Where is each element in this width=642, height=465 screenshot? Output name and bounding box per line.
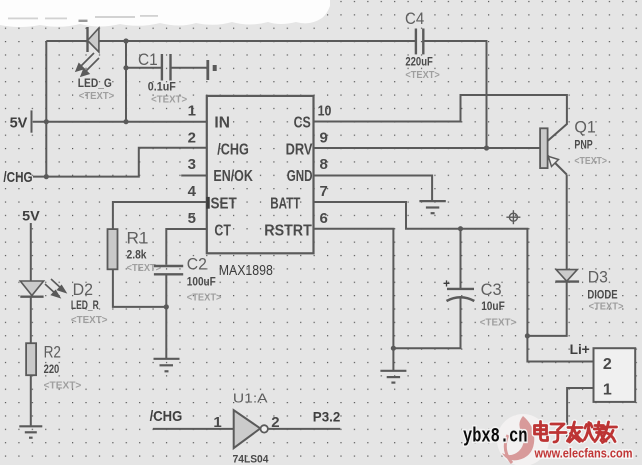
wire: left vertical rail bbox=[45, 41, 47, 177]
ground (GND pin) bbox=[419, 201, 445, 213]
wire: Q1 emitter vertical to D3 bbox=[566, 175, 568, 270]
junction at /CHG rail bbox=[44, 174, 49, 179]
svg-text:MAX1898: MAX1898 bbox=[219, 263, 273, 279]
svg-text:LED_R: LED_R bbox=[71, 298, 99, 312]
svg-text:3: 3 bbox=[188, 156, 196, 173]
LED D1 LED_G bbox=[76, 27, 114, 102]
junction D3 / battery wire bbox=[525, 333, 530, 338]
svg-text:D3: D3 bbox=[588, 268, 608, 287]
wire: C1 right lead to stub bar bbox=[170, 67, 207, 69]
svg-text:BATT: BATT bbox=[270, 196, 300, 213]
svg-text:RSTRT: RSTRT bbox=[264, 223, 312, 240]
svg-text:R2: R2 bbox=[44, 343, 61, 362]
svg-text:U1:A: U1:A bbox=[233, 390, 268, 405]
wire: pin4 ISET to R1 bbox=[113, 202, 207, 229]
svg-text:1: 1 bbox=[213, 414, 221, 431]
ground (C2) bbox=[154, 359, 180, 372]
wire: pin5 CT to C2 bbox=[166, 229, 207, 265]
svg-text:CT: CT bbox=[214, 223, 231, 240]
resistor R2 bbox=[26, 343, 81, 427]
svg-text:IN: IN bbox=[214, 115, 230, 132]
wire: pin3 EN/OK stub bbox=[181, 175, 207, 177]
svg-text:<TEXT>: <TEXT> bbox=[480, 317, 516, 329]
svg-text:R1: R1 bbox=[127, 229, 149, 248]
svg-text:LED_G: LED_G bbox=[78, 76, 112, 90]
svg-text:C1: C1 bbox=[138, 50, 158, 69]
svg-text:5: 5 bbox=[188, 210, 196, 227]
watermark logo circle bbox=[497, 414, 549, 465]
stub bar right of C1 bbox=[206, 60, 209, 80]
svg-text:www.elecfans.com: www.elecfans.com bbox=[534, 447, 633, 461]
svg-text:<TEXT>: <TEXT> bbox=[151, 94, 187, 106]
svg-text:2.8k: 2.8k bbox=[127, 247, 147, 261]
diode D3 bbox=[555, 268, 623, 313]
svg-text:PNP: PNP bbox=[574, 138, 592, 152]
svg-text:2: 2 bbox=[271, 414, 279, 431]
wire: CS pin 10 to Q1 collector bbox=[314, 95, 567, 141]
svg-text:5V: 5V bbox=[22, 208, 40, 224]
junction R1 / C2 bbox=[164, 304, 169, 309]
svg-text:C4: C4 bbox=[405, 9, 424, 28]
wire: D3 cathode down and left to tee bbox=[527, 282, 566, 336]
wire: C1 vertical from top rail to 5V wire bbox=[125, 41, 127, 122]
wire: DRV pin 9 to Q1 base bbox=[314, 147, 541, 149]
svg-text:Li+: Li+ bbox=[570, 341, 590, 357]
wire: C3 top lead bbox=[460, 229, 462, 288]
svg-text:D2: D2 bbox=[73, 280, 93, 299]
resistor R1 bbox=[108, 229, 162, 274]
svg-text:C2: C2 bbox=[187, 255, 207, 274]
wire: top rail from left rail corner to C4 bbox=[46, 40, 416, 42]
crosshair bbox=[506, 210, 520, 224]
junction at 5V rail bbox=[44, 119, 49, 124]
svg-text:7: 7 bbox=[320, 183, 328, 200]
svg-text:<TEXT>: <TEXT> bbox=[574, 155, 607, 167]
capacitor C2 bbox=[154, 255, 222, 304]
5V port bar bbox=[31, 110, 33, 132]
svg-text:1: 1 bbox=[603, 381, 612, 398]
svg-text:220: 220 bbox=[44, 362, 60, 376]
wire: GND pin 8 to ground bbox=[314, 176, 433, 202]
svg-text:<TEXT>: <TEXT> bbox=[187, 291, 222, 303]
svg-text:/CHG: /CHG bbox=[3, 169, 32, 186]
wire: C4 right plate to vertical drop to DRV line bbox=[423, 41, 486, 148]
wire: U1 output to P3.2 bbox=[268, 428, 341, 430]
svg-text:4: 4 bbox=[188, 183, 197, 200]
svg-text:/CHG: /CHG bbox=[217, 141, 249, 158]
junction 5V wire / C1 branch bbox=[123, 119, 128, 124]
wire: BATT pin 7 bbox=[314, 202, 528, 336]
ground (C3/RSTRT) bbox=[380, 371, 406, 383]
svg-text:ISET: ISET bbox=[207, 196, 237, 213]
connector J1 Li+ bbox=[570, 341, 636, 402]
wire: D2 to R2 bbox=[30, 297, 32, 344]
svg-text:5V: 5V bbox=[10, 115, 28, 132]
white erased blob top-left bbox=[0, 0, 330, 27]
svg-text:8: 8 bbox=[320, 156, 328, 173]
wire: tee down to Li+ pin 2 bbox=[527, 336, 593, 362]
wire: 5V port to IC pin IN bbox=[33, 121, 207, 123]
svg-text:220uF: 220uF bbox=[405, 54, 432, 68]
wire: C1 left lead bbox=[126, 67, 161, 69]
wire: Li+ pin 1 down bbox=[567, 388, 593, 437]
wire: C3 bottom lead bbox=[393, 297, 460, 349]
svg-text:0.1uF: 0.1uF bbox=[148, 80, 176, 94]
capacitor C4 bbox=[405, 9, 440, 81]
capacitor C1 bbox=[138, 50, 217, 106]
wire: 5V to D2 bbox=[30, 223, 32, 281]
svg-text:Q1: Q1 bbox=[574, 118, 596, 137]
junction top rail / C1 branch bbox=[123, 38, 128, 43]
wire: /CHG port to pin 2 bbox=[33, 148, 207, 177]
svg-text:DIODE: DIODE bbox=[587, 287, 617, 301]
junction C3 / ground bbox=[391, 346, 396, 351]
junction DRV wire / C4 branch bbox=[484, 145, 489, 150]
wire: C2 bottom to ground bbox=[165, 276, 167, 359]
ground (R2) bbox=[19, 426, 42, 437]
svg-text:P3.2: P3.2 bbox=[313, 409, 341, 425]
inverter U1:A 74LS04 bbox=[213, 390, 279, 465]
svg-text:<TEXT>: <TEXT> bbox=[44, 380, 82, 392]
svg-text:C3: C3 bbox=[481, 280, 502, 299]
transistor Q1 PNP bbox=[540, 118, 607, 175]
svg-text:9: 9 bbox=[320, 129, 328, 146]
svg-text:/CHG: /CHG bbox=[150, 408, 183, 425]
capacitor C3 (polarized) bbox=[443, 277, 516, 329]
port 5V (lower) bbox=[22, 208, 40, 281]
svg-text:10uF: 10uF bbox=[481, 299, 505, 313]
wire: R1 bottom to C2 junction bbox=[113, 269, 166, 307]
faint erased text remains bbox=[8, 15, 158, 19]
svg-text:74LS04: 74LS04 bbox=[233, 453, 270, 465]
svg-text:1: 1 bbox=[188, 103, 196, 120]
wire: /CHG to U1 input bbox=[153, 428, 234, 430]
LED D2 LED_R bbox=[20, 279, 107, 343]
svg-text:GND: GND bbox=[287, 168, 313, 185]
watermark red chinese text 电子发烧友 bbox=[535, 422, 617, 443]
junction BATT wire / C3 branch bbox=[458, 226, 463, 231]
junction C1 lead bbox=[123, 65, 128, 70]
svg-text:<TEXT>: <TEXT> bbox=[71, 314, 108, 326]
svg-text:<TEXT>: <TEXT> bbox=[127, 262, 162, 274]
svg-text:10: 10 bbox=[318, 103, 332, 120]
svg-text:2: 2 bbox=[188, 129, 196, 146]
svg-text:EN/OK: EN/OK bbox=[213, 168, 253, 185]
svg-text:<TEXT>: <TEXT> bbox=[405, 69, 439, 81]
wire: RSTRT pin 6 to ground bbox=[314, 229, 394, 371]
wire: R2 to ground bbox=[30, 375, 32, 426]
svg-text:2: 2 bbox=[603, 356, 612, 373]
svg-text:CS: CS bbox=[294, 115, 311, 132]
svg-text:100uF: 100uF bbox=[187, 275, 216, 289]
svg-text:ybx8.cn: ybx8.cn bbox=[463, 426, 528, 449]
IC U? MAX1898 box bbox=[207, 96, 314, 253]
svg-text:DRV: DRV bbox=[286, 141, 313, 158]
svg-text:<TEXT>: <TEXT> bbox=[589, 301, 624, 313]
svg-text:<TEXT>: <TEXT> bbox=[79, 90, 114, 102]
svg-text:6: 6 bbox=[320, 210, 328, 227]
